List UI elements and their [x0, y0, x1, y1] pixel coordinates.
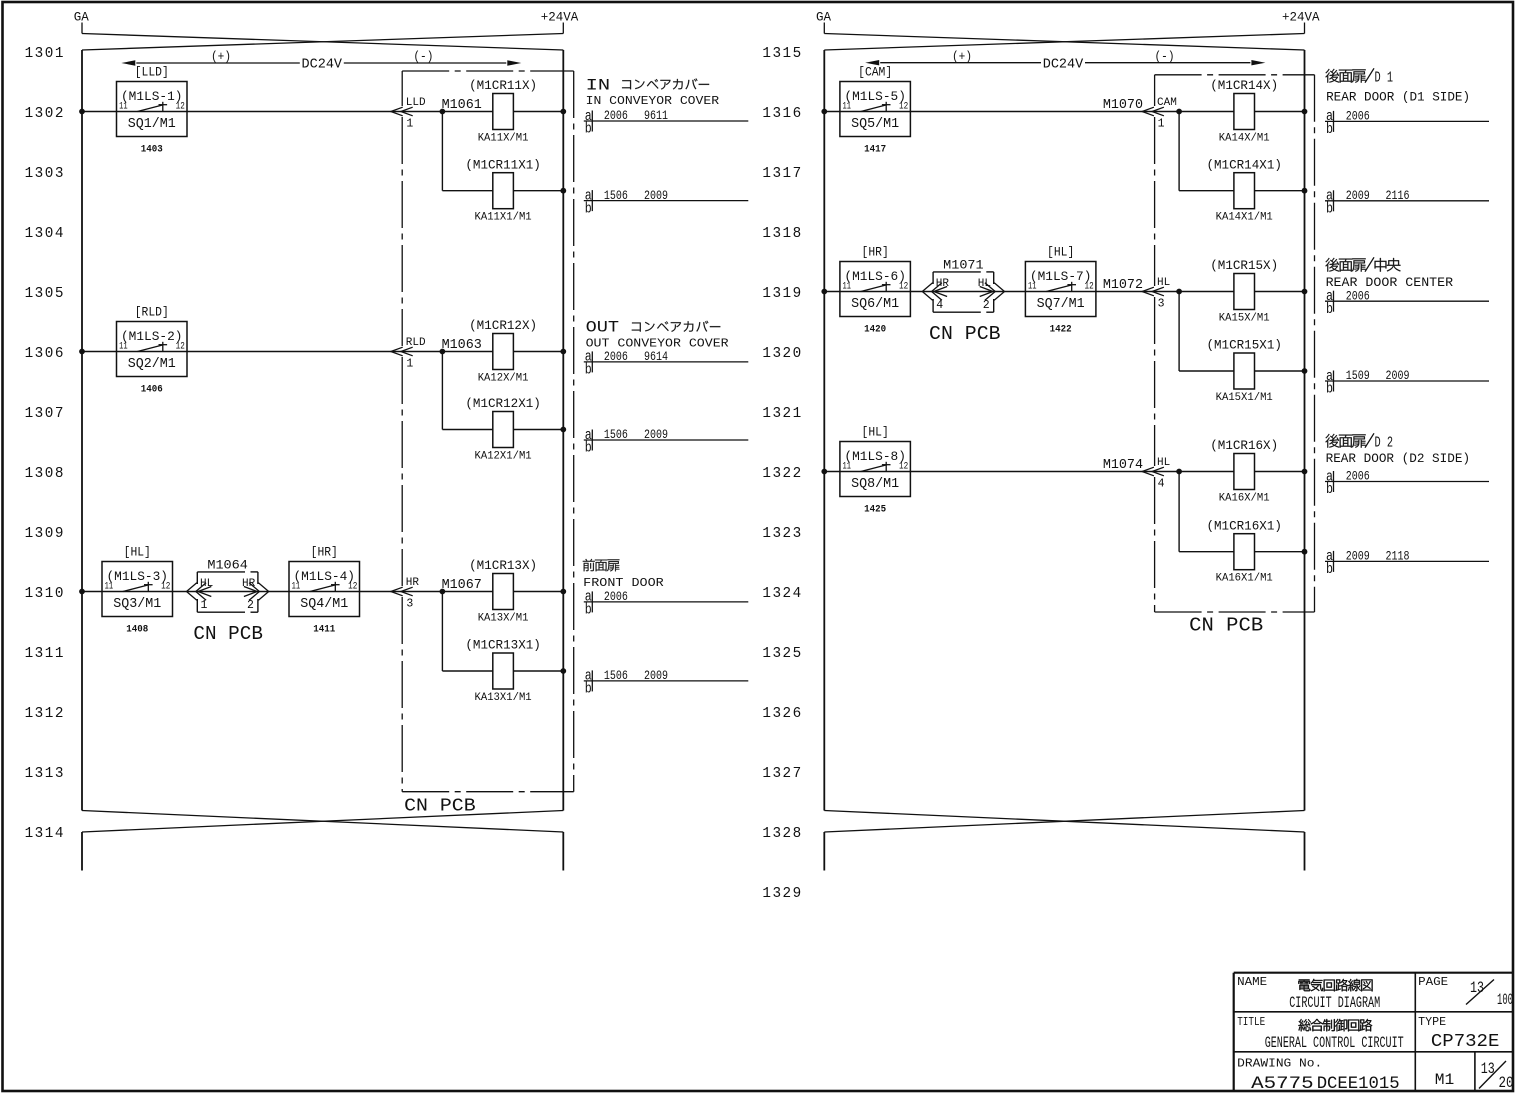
title block cell PAGE 13/100: [1418, 976, 1513, 1009]
svg-text:(M1CR12X1): (M1CR12X1): [465, 396, 541, 411]
svg-text:4: 4: [1158, 477, 1165, 490]
svg-text:1307: 1307: [25, 406, 65, 422]
svg-text:1302: 1302: [25, 106, 65, 122]
svg-text:1: 1: [201, 599, 208, 612]
connector pin chevron HL 4: [1142, 457, 1170, 490]
branch wire: [442, 112, 563, 191]
bus break crossover (bottom): [824, 811, 1304, 871]
svg-text:1309: 1309: [25, 526, 65, 542]
svg-text:(M1LS-4): (M1LS-4): [294, 569, 356, 584]
title block cell TITLE / general control circuit: [1237, 1016, 1404, 1052]
junction at right rail: [1302, 289, 1308, 295]
svg-text:SQ5/M1: SQ5/M1: [851, 117, 899, 132]
svg-text:11: 11: [843, 101, 852, 113]
title block cell TYPE CP732E: [1418, 1016, 1499, 1052]
junction at right rail: [1302, 469, 1308, 475]
header label front door (JP): [583, 559, 595, 571]
relay coil M1CR12X1 KA12X1/M1: [465, 396, 541, 462]
svg-text:CP732E: CP732E: [1431, 1032, 1500, 1052]
limit switch M1LS-6 (SQ6/M1) contact: [840, 245, 911, 336]
svg-text:11: 11: [1028, 281, 1037, 293]
relay coil M1CR13X KA13X/M1: [469, 558, 537, 624]
svg-text:b: b: [585, 200, 592, 217]
svg-text:M1064: M1064: [207, 557, 248, 572]
svg-text:M1061: M1061: [442, 98, 482, 113]
branch junction at right rail: [1302, 368, 1308, 374]
svg-text:1408: 1408: [126, 625, 148, 636]
svg-text:2006: 2006: [604, 108, 628, 123]
svg-text:12: 12: [1085, 281, 1094, 293]
svg-text:1317: 1317: [762, 166, 802, 182]
svg-text:OUT: OUT: [586, 319, 620, 337]
svg-text:(M1CR13X1): (M1CR13X1): [465, 638, 541, 653]
svg-text:(M1CR16X1): (M1CR16X1): [1206, 518, 1282, 533]
svg-text:b: b: [1326, 481, 1333, 498]
branch wire: [442, 352, 563, 430]
svg-text:[HL]: [HL]: [862, 425, 889, 440]
svg-text:(+): (+): [211, 49, 231, 64]
svg-text:12: 12: [899, 461, 908, 473]
svg-text:M1070: M1070: [1103, 98, 1143, 113]
limit switch M1LS-4 (SQ4/M1) contact: [289, 545, 360, 636]
rung wire: [82, 591, 563, 593]
svg-text:1420: 1420: [864, 325, 886, 336]
limit switch M1LS-8 (SQ8/M1) contact: [840, 425, 911, 516]
svg-text:M1: M1: [1435, 1071, 1455, 1089]
junction at left rail: [79, 349, 85, 355]
svg-text:1314: 1314: [25, 826, 65, 842]
junction at right rail: [1302, 109, 1308, 115]
right bus rail (-): [1304, 50, 1306, 811]
relay coil M1CR13X1 KA13X1/M1: [465, 638, 541, 704]
branch junction at right rail: [1302, 188, 1308, 194]
branch junction at right rail: [560, 427, 566, 433]
rung wire: [824, 111, 1304, 113]
junction at left rail: [821, 289, 827, 295]
svg-text:b: b: [585, 440, 592, 457]
title block cell DRAWING No.: [1237, 1058, 1400, 1094]
svg-text:KA13X/M1: KA13X/M1: [478, 612, 529, 624]
branch junction: [440, 109, 446, 115]
branch junction: [1176, 289, 1182, 295]
svg-text:DCEE1015: DCEE1015: [1317, 1074, 1400, 1094]
DC24V polarity arrow: [865, 49, 1265, 72]
svg-text:1325: 1325: [762, 646, 802, 662]
svg-text:11: 11: [292, 581, 301, 593]
svg-text:2009: 2009: [644, 668, 668, 683]
svg-text:b: b: [585, 681, 592, 698]
svg-text:2: 2: [247, 599, 254, 612]
title block: [1234, 973, 1513, 1091]
svg-text:SQ1/M1: SQ1/M1: [128, 117, 176, 132]
svg-text:M1067: M1067: [442, 578, 482, 593]
svg-text:2006: 2006: [1346, 469, 1370, 484]
svg-text:1318: 1318: [762, 226, 802, 242]
svg-text:TYPE: TYPE: [1418, 1016, 1446, 1029]
rung wire: [824, 291, 1304, 293]
svg-text:11: 11: [843, 281, 852, 293]
svg-text:(M1CR14X): (M1CR14X): [1210, 78, 1278, 93]
svg-text:9611: 9611: [644, 108, 668, 123]
svg-text:KA11X/M1: KA11X/M1: [478, 132, 529, 144]
svg-text:1321: 1321: [762, 406, 802, 422]
branch junction: [440, 349, 446, 355]
svg-text:1323: 1323: [762, 526, 802, 542]
svg-text:1312: 1312: [25, 706, 65, 722]
svg-text:CIRCUIT DIAGRAM: CIRCUIT DIAGRAM: [1289, 994, 1380, 1012]
branch junction: [1176, 469, 1182, 475]
CN PCB boundary (dash-dot box): [1155, 75, 1315, 612]
svg-text:HL: HL: [1157, 277, 1170, 289]
svg-text:b: b: [585, 121, 592, 138]
svg-text:KA12X/M1: KA12X/M1: [478, 372, 529, 384]
svg-text:(M1LS-8): (M1LS-8): [844, 449, 906, 464]
svg-text:REAR DOOR (D2 SIDE): REAR DOOR (D2 SIDE): [1326, 451, 1471, 466]
svg-text:1406: 1406: [141, 385, 163, 396]
svg-text:CN PCB: CN PCB: [404, 797, 476, 817]
connector pin chevron CAM 1: [1142, 97, 1177, 130]
relay coil M1CR12X KA12X/M1: [469, 318, 537, 384]
svg-text:DC24V: DC24V: [1043, 57, 1084, 72]
svg-text:1315: 1315: [762, 46, 802, 62]
svg-text:1506: 1506: [604, 427, 628, 442]
svg-text:M1072: M1072: [1103, 278, 1143, 293]
cross-reference tap a/b 2006: [584, 589, 749, 619]
svg-text:(M1LS-5): (M1LS-5): [844, 89, 906, 104]
limit switch M1LS-5 (SQ5/M1) contact: [840, 65, 911, 156]
svg-text:b: b: [1326, 201, 1333, 218]
header label rear door D1 (JP): [1325, 68, 1393, 86]
junction at left rail: [821, 109, 827, 115]
svg-text:1411: 1411: [313, 625, 335, 636]
svg-text:RLD: RLD: [406, 337, 426, 349]
connector pin chevron HL 3: [1142, 277, 1170, 310]
svg-text:2006: 2006: [604, 589, 628, 604]
svg-text:1310: 1310: [25, 586, 65, 602]
svg-text:(M1CR11X): (M1CR11X): [469, 78, 537, 93]
branch wire: [1179, 112, 1304, 191]
svg-text:9614: 9614: [644, 349, 668, 364]
svg-text:SQ8/M1: SQ8/M1: [851, 477, 899, 492]
cross-reference tap a/b 2006: [1325, 108, 1489, 138]
cross-reference tap a/b 1509 2009: [1325, 368, 1489, 398]
svg-text:D 1: D 1: [1375, 71, 1394, 87]
relay coil M1CR11X KA11X/M1: [469, 78, 537, 144]
svg-text:D 2: D 2: [1375, 436, 1394, 452]
svg-text:FRONT DOOR: FRONT DOOR: [583, 576, 664, 590]
svg-text:12: 12: [176, 101, 185, 113]
svg-text:[RLD]: [RLD]: [135, 305, 169, 320]
svg-text:b: b: [1326, 301, 1333, 318]
svg-text:SQ7/M1: SQ7/M1: [1037, 297, 1085, 312]
svg-text:1306: 1306: [25, 346, 65, 362]
svg-text:1324: 1324: [762, 586, 802, 602]
svg-text:DRAWING No.: DRAWING No.: [1237, 1058, 1322, 1071]
title block cell M1 13/20: [1435, 1060, 1514, 1092]
svg-text:1308: 1308: [25, 466, 65, 482]
svg-text:1320: 1320: [762, 346, 802, 362]
svg-text:(M1LS-1): (M1LS-1): [121, 89, 183, 104]
left bus rail (+): [823, 50, 825, 811]
cross-reference tap a/b 2006: [1325, 288, 1489, 318]
svg-text:KA15X/M1: KA15X/M1: [1219, 312, 1270, 324]
svg-text:2116: 2116: [1386, 188, 1410, 203]
svg-text:HL: HL: [200, 578, 213, 590]
svg-text:SQ3/M1: SQ3/M1: [113, 597, 161, 612]
svg-text:1509: 1509: [1346, 368, 1370, 383]
cross-reference tap a/b 1506 2009: [584, 187, 749, 217]
svg-text:1: 1: [406, 357, 413, 370]
branch junction at right rail: [1302, 549, 1308, 555]
CN PCB connector M1064: [187, 557, 269, 612]
rung wire: [82, 351, 563, 353]
svg-text:[LLD]: [LLD]: [135, 65, 169, 80]
svg-text:[HL]: [HL]: [124, 545, 151, 560]
svg-text:1506: 1506: [604, 668, 628, 683]
svg-text:[HR]: [HR]: [862, 245, 889, 260]
svg-text:4: 4: [936, 299, 943, 312]
svg-text:2006: 2006: [604, 349, 628, 364]
svg-text:IN CONVEYOR COVER: IN CONVEYOR COVER: [586, 94, 720, 108]
svg-text:(M1LS-2): (M1LS-2): [121, 329, 183, 344]
svg-text:b: b: [585, 602, 592, 619]
svg-text:KA14X/M1: KA14X/M1: [1219, 132, 1270, 144]
svg-text:CN PCB: CN PCB: [929, 323, 1001, 345]
svg-text:KA11X1/M1: KA11X1/M1: [475, 212, 533, 224]
cross-reference tap a/b 1506 2009: [584, 668, 749, 698]
svg-text:1506: 1506: [604, 188, 628, 203]
svg-text:1417: 1417: [864, 145, 886, 156]
limit switch M1LS-1 (SQ1/M1) contact: [117, 65, 188, 156]
svg-text:1422: 1422: [1050, 325, 1072, 336]
svg-text:(+): (+): [952, 49, 972, 64]
relay coil M1CR15X KA15X/M1: [1210, 258, 1278, 324]
svg-text:GA: GA: [74, 11, 90, 25]
CN PCB connector M1071: [922, 257, 1004, 312]
junction at right rail: [560, 589, 566, 595]
svg-text:(M1CR11X1): (M1CR11X1): [465, 157, 541, 172]
svg-text:1305: 1305: [25, 286, 65, 302]
junction at left rail: [821, 469, 827, 475]
rung wire: [82, 111, 563, 113]
svg-text:11: 11: [119, 341, 128, 353]
svg-text:1304: 1304: [25, 226, 65, 242]
svg-text:b: b: [1326, 561, 1333, 578]
svg-text:12: 12: [348, 581, 357, 593]
CN PCB boundary (dash-dot box): [402, 71, 574, 792]
relay coil M1CR14X KA14X/M1: [1210, 78, 1278, 144]
svg-text:11: 11: [119, 101, 128, 113]
svg-text:20: 20: [1499, 1074, 1514, 1092]
connector pin chevron HR 3: [391, 577, 420, 610]
cross-reference tap a/b 2006 9614: [584, 349, 749, 379]
svg-text:CAM: CAM: [1157, 97, 1177, 109]
svg-text:12: 12: [899, 101, 908, 113]
relay coil M1CR15X1 KA15X1/M1: [1206, 338, 1282, 404]
svg-text:IN: IN: [586, 76, 611, 94]
svg-text:1303: 1303: [25, 166, 65, 182]
svg-text:KA12X1/M1: KA12X1/M1: [475, 450, 533, 462]
svg-text:3: 3: [406, 597, 413, 610]
svg-text:REAR DOOR CENTER: REAR DOOR CENTER: [1326, 275, 1454, 290]
junction at left rail: [79, 109, 85, 115]
header label OUT conveyor cover (JP): [586, 319, 721, 337]
svg-text:SQ2/M1: SQ2/M1: [128, 357, 176, 372]
svg-text:HR: HR: [936, 278, 950, 290]
svg-text:(M1CR12X): (M1CR12X): [469, 318, 537, 333]
left bus rail (+): [81, 50, 83, 811]
cross-reference tap a/b 2009 2116: [1325, 188, 1489, 218]
bus break crossover (bottom): [82, 811, 563, 871]
right bus rail (-): [562, 50, 564, 811]
svg-text:1316: 1316: [762, 106, 802, 122]
relay coil M1CR16X1 KA16X1/M1: [1206, 518, 1282, 584]
junction at left rail: [79, 589, 85, 595]
svg-text:1329: 1329: [762, 886, 802, 902]
cross-reference tap a/b 2009 2118: [1325, 548, 1489, 578]
connector pin chevron RLD 1: [391, 337, 426, 370]
svg-text:2009: 2009: [1346, 188, 1370, 203]
svg-text:(M1CR16X): (M1CR16X): [1210, 438, 1278, 453]
rung wire: [824, 471, 1304, 473]
svg-text:NAME: NAME: [1237, 976, 1267, 989]
svg-text:2009: 2009: [1386, 368, 1410, 383]
svg-text:1326: 1326: [762, 706, 802, 722]
svg-text:GA: GA: [816, 11, 832, 25]
svg-text:2006: 2006: [1346, 109, 1370, 124]
svg-text:11: 11: [843, 461, 852, 473]
svg-text:11: 11: [105, 581, 114, 593]
limit switch M1LS-2 (SQ2/M1) contact: [117, 305, 188, 396]
bus break crossover (top): [824, 23, 1304, 51]
svg-text:(M1LS-6): (M1LS-6): [844, 269, 906, 284]
svg-text:(-): (-): [413, 49, 433, 64]
svg-text:(M1LS-3): (M1LS-3): [107, 569, 169, 584]
svg-text:1301: 1301: [25, 46, 65, 62]
cross-reference tap a/b 1506 2009: [584, 427, 749, 457]
header label rear door center (JP): [1325, 257, 1400, 271]
svg-text:1328: 1328: [762, 826, 802, 842]
svg-text:LLD: LLD: [406, 97, 426, 109]
svg-text:1319: 1319: [762, 286, 802, 302]
limit switch M1LS-3 (SQ3/M1) contact: [102, 545, 173, 636]
svg-text:+24VA: +24VA: [1282, 11, 1320, 25]
svg-text:SQ6/M1: SQ6/M1: [851, 297, 899, 312]
bus break crossover (top): [82, 23, 563, 51]
svg-text:1322: 1322: [762, 466, 802, 482]
svg-text:REAR DOOR (D1 SIDE): REAR DOOR (D1 SIDE): [1326, 89, 1470, 104]
svg-text:(M1CR15X1): (M1CR15X1): [1206, 338, 1282, 353]
branch wire: [1179, 472, 1304, 552]
svg-text:KA16X/M1: KA16X/M1: [1219, 492, 1270, 504]
relay coil M1CR11X1 KA11X1/M1: [465, 157, 541, 223]
svg-text:HL: HL: [978, 278, 991, 290]
svg-text:1: 1: [1158, 117, 1165, 130]
svg-text:b: b: [585, 362, 592, 379]
svg-text:12: 12: [176, 341, 185, 353]
DC24V polarity arrow: [121, 49, 521, 72]
svg-text:2006: 2006: [1346, 288, 1370, 303]
svg-text:(-): (-): [1155, 49, 1175, 64]
relay coil M1CR16X KA16X/M1: [1210, 438, 1278, 504]
svg-text:TITLE: TITLE: [1237, 1016, 1265, 1029]
svg-text:HR: HR: [242, 578, 256, 590]
svg-text:SQ4/M1: SQ4/M1: [300, 597, 348, 612]
junction at right rail: [560, 109, 566, 115]
svg-text:KA13X1/M1: KA13X1/M1: [475, 692, 533, 704]
title block cell NAME / circuit diagram: [1237, 976, 1380, 1012]
svg-text:M1074: M1074: [1103, 458, 1143, 473]
svg-text:100: 100: [1497, 991, 1513, 1009]
svg-text:M1063: M1063: [442, 338, 482, 353]
svg-text:[HL]: [HL]: [1047, 245, 1074, 260]
svg-text:1311: 1311: [25, 646, 65, 662]
svg-text:CN PCB: CN PCB: [1189, 615, 1263, 637]
svg-text:PAGE: PAGE: [1418, 976, 1448, 989]
svg-text:1327: 1327: [762, 766, 802, 782]
svg-text:12: 12: [899, 281, 908, 293]
svg-text:KA16X1/M1: KA16X1/M1: [1216, 573, 1274, 585]
svg-text:1313: 1313: [25, 766, 65, 782]
cross-reference tap a/b 2006: [1325, 468, 1489, 498]
junction at right rail: [560, 349, 566, 355]
branch junction at right rail: [560, 668, 566, 674]
relay coil M1CR14X1 KA14X1/M1: [1206, 157, 1282, 223]
branch junction at right rail: [560, 188, 566, 194]
svg-text:DC24V: DC24V: [302, 58, 343, 73]
limit switch M1LS-7 (SQ7/M1) contact: [1025, 245, 1096, 336]
svg-text:(M1LS-7): (M1LS-7): [1030, 269, 1092, 284]
svg-text:b: b: [1326, 381, 1333, 398]
svg-text:2118: 2118: [1386, 549, 1410, 564]
connector pin chevron LLD 1: [391, 97, 426, 130]
svg-text:2009: 2009: [1346, 549, 1370, 564]
svg-text:2: 2: [983, 299, 990, 312]
branch wire: [1179, 292, 1304, 372]
svg-text:1: 1: [406, 117, 413, 130]
svg-text:3: 3: [1158, 297, 1165, 310]
svg-text:KA14X1/M1: KA14X1/M1: [1216, 212, 1274, 224]
svg-text:1403: 1403: [141, 145, 163, 156]
svg-text:+24VA: +24VA: [541, 11, 579, 25]
svg-text:b: b: [1326, 121, 1333, 138]
svg-text:HL: HL: [1157, 457, 1170, 469]
svg-text:1425: 1425: [864, 505, 886, 516]
svg-text:HR: HR: [406, 577, 420, 589]
svg-text:CN PCB: CN PCB: [193, 623, 263, 645]
svg-text:2009: 2009: [644, 188, 668, 203]
svg-text:(M1CR15X): (M1CR15X): [1210, 258, 1278, 273]
svg-text:(M1CR14X1): (M1CR14X1): [1206, 157, 1282, 172]
svg-text:KA15X1/M1: KA15X1/M1: [1216, 392, 1274, 404]
svg-text:GENERAL CONTROL CIRCUIT: GENERAL CONTROL CIRCUIT: [1265, 1034, 1404, 1052]
svg-text:[CAM]: [CAM]: [858, 65, 892, 80]
svg-text:(M1CR13X): (M1CR13X): [469, 558, 537, 573]
branch junction: [1176, 109, 1182, 115]
header label IN conveyor cover (JP): [586, 76, 710, 94]
branch junction: [440, 589, 446, 595]
svg-text:A5775: A5775: [1251, 1074, 1314, 1094]
branch wire: [442, 592, 563, 672]
cross-reference tap a/b 2006 9611: [584, 108, 749, 138]
svg-text:M1071: M1071: [943, 257, 984, 272]
svg-text:12: 12: [161, 581, 170, 593]
svg-text:2009: 2009: [644, 427, 668, 442]
svg-text:[HR]: [HR]: [311, 545, 338, 560]
header label rear door D2 (JP): [1325, 433, 1393, 451]
